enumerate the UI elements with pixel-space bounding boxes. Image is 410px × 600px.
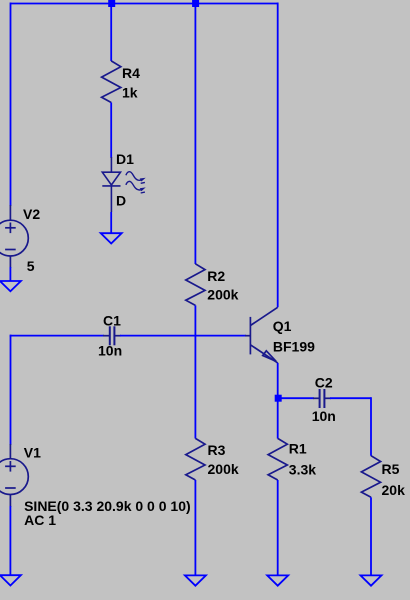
wire: V2 to ground: [9, 256, 11, 268]
V2 plus sign: [5, 223, 16, 234]
diode D1 (LED): [102, 157, 120, 212]
ground: below V1: [0, 575, 21, 585]
resistor R5: [361, 456, 380, 498]
wire: C2 to R5 column: [324, 397, 331, 399]
V2 minus sign: [5, 249, 16, 251]
Q1 base lead: [245, 335, 250, 337]
ground: below D1: [101, 233, 122, 243]
wire: emitter node to C2: [278, 397, 314, 399]
wire: R4 column from rail to R4: [110, 4, 112, 62]
V1 minus sign: [5, 487, 16, 489]
voltage source V2 circle: [0, 220, 28, 256]
wire: collector to top rail: [277, 3, 279, 308]
V1 top lead: [9, 444, 11, 459]
svg-text:AC 1: AC 1: [24, 512, 56, 528]
ground: below R1: [267, 575, 288, 585]
wire: top power rail: [11, 3, 278, 5]
svg-text:C1: C1: [103, 312, 121, 328]
ground: below R5: [361, 575, 382, 585]
svg-text:D: D: [116, 192, 126, 208]
wire: emitter down to R1: [277, 363, 279, 439]
svg-text:10n: 10n: [312, 408, 336, 424]
svg-text:D1: D1: [116, 151, 134, 167]
resistor R2: [186, 264, 205, 306]
svg-text:BF199: BF199: [273, 338, 315, 354]
svg-text:5: 5: [27, 258, 35, 274]
capacitor C2: [320, 389, 325, 408]
svg-text:200k: 200k: [208, 461, 239, 477]
wire: R1 to ground: [277, 480, 279, 575]
wire: R2 to R3 (crosses C1 wire): [194, 305, 196, 438]
node: junction top rail / R2 column: [192, 0, 199, 7]
svg-text:R2: R2: [207, 268, 225, 284]
wire: C1 to Q1 base: [114, 335, 121, 337]
V1 plus sign: [5, 461, 16, 472]
svg-text:R3: R3: [208, 442, 226, 458]
svg-text:3.3k: 3.3k: [289, 462, 316, 478]
wire: input column down to V1: [10, 336, 12, 445]
wire: R4 to D1: [110, 103, 112, 159]
ground: below V2: [0, 281, 21, 291]
svg-text:20k: 20k: [382, 482, 406, 498]
svg-text:C2: C2: [315, 375, 333, 391]
wire: R5 to ground: [370, 497, 372, 575]
D1 light emission arrow 1: [126, 172, 146, 184]
wire: R2 column from rail to R2: [194, 4, 196, 265]
capacitor C1: [110, 326, 115, 345]
ground: below R3: [185, 575, 206, 585]
svg-text:Q1: Q1: [273, 318, 292, 334]
svg-text:R4: R4: [122, 65, 140, 81]
wire: D1 to ground: [110, 212, 112, 233]
svg-text:1k: 1k: [122, 85, 138, 101]
svg-text:10n: 10n: [98, 342, 122, 358]
svg-text:V1: V1: [24, 445, 41, 461]
resistor R4: [102, 61, 121, 103]
resistor R3: [186, 438, 205, 480]
svg-text:V2: V2: [23, 206, 40, 222]
transistor Q1 (NPN): [250, 307, 277, 363]
V2 top lead: [9, 205, 11, 220]
D1 light emission arrow 2: [126, 181, 146, 193]
svg-text:200k: 200k: [207, 287, 238, 303]
resistor R1: [268, 438, 287, 480]
svg-text:R5: R5: [382, 461, 400, 477]
voltage source V1 circle: [0, 459, 28, 495]
wire: R3 to ground: [194, 480, 196, 575]
wire: input node corner to C1: [10, 335, 12, 337]
node: junction emitter / C2: [275, 395, 282, 402]
wire: left column V2 top: [10, 3, 12, 207]
node: junction top rail / R4 column: [108, 0, 115, 7]
wire: V1 to ground: [9, 494, 11, 507]
svg-text:R1: R1: [289, 441, 307, 457]
